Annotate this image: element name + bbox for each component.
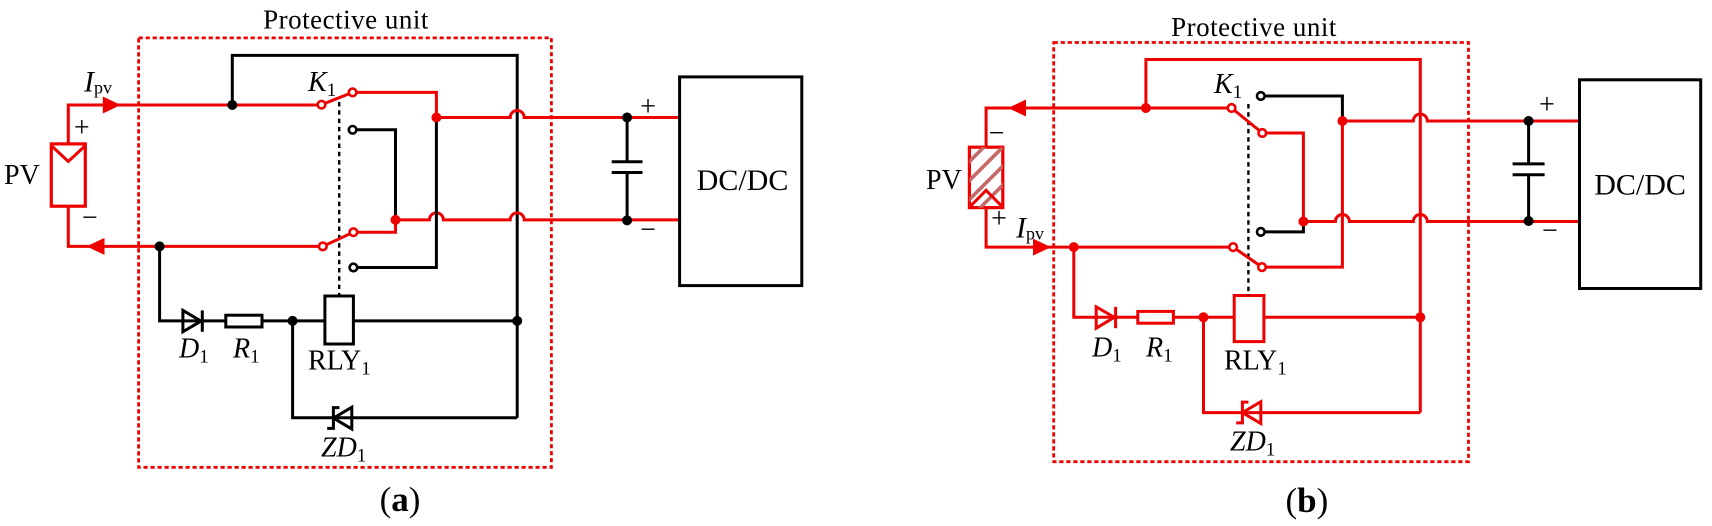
svg-text:DC/DC: DC/DC (697, 164, 789, 197)
contact K1 top common (a) (318, 101, 326, 109)
node tap PV+ (b) (1069, 242, 1079, 252)
arrow Ipv (b) (1033, 239, 1051, 256)
wire D1 branch from PV+ (b) (1074, 247, 1234, 317)
svg-text:Protective unit: Protective unit (263, 5, 429, 35)
node output- (a) (391, 215, 401, 225)
wire ZD1 branch (a) (293, 321, 518, 418)
PV chevron (a) (51, 146, 85, 162)
svg-text:PV: PV (4, 160, 40, 191)
wire RLY1 to right rail (b) (1264, 316, 1420, 319)
svg-text:PV: PV (926, 165, 962, 196)
arrow Ipv (a) (103, 97, 121, 114)
diode D1 (a) (183, 310, 202, 331)
capacitor C top stub (b) (1527, 121, 1530, 164)
svg-text:−: − (82, 203, 98, 234)
PV hatch (b) (955, 92, 1020, 233)
PV cell PV (b) (969, 147, 1002, 207)
svg-text:+: + (991, 203, 1007, 234)
wire PV+ bottom (b) (986, 208, 1233, 248)
arrow return current (a) (87, 238, 105, 255)
svg-text:−: − (989, 118, 1005, 149)
node R1-RLY1 junction (b) (1199, 312, 1209, 322)
capacitor C top stub (a) (626, 118, 629, 162)
node R1-RLY1 junction (a) (288, 316, 298, 326)
wire NC bottom contact black (b) (1261, 222, 1304, 232)
resistor R1 (b) (1138, 311, 1174, 323)
PV chevron (b) (969, 190, 1002, 207)
node cap- (a) (622, 215, 632, 225)
zener diode ZD1 (b) (1236, 402, 1261, 424)
DC/DC converter block (b) (1580, 80, 1701, 289)
wire D1 branch from PV- (a) (160, 246, 325, 321)
wire K1 bottom NO riser (b) (1262, 121, 1342, 267)
wire output- (a) (396, 213, 680, 220)
contact K1 bottom NO (a) (350, 228, 358, 236)
node RLY1-right rail junction (b) (1415, 312, 1425, 322)
zener diode ZD1 (a) (327, 407, 352, 429)
svg-text:+: + (640, 91, 656, 122)
node cap- (b) (1524, 216, 1534, 226)
contact K1 top NO (a) (349, 89, 357, 97)
DC/DC converter block (a) (680, 77, 802, 286)
switch blade K1 top (a) (322, 92, 353, 104)
node output+ (b) (1337, 116, 1347, 126)
wire NC top contact black (b) (1261, 96, 1343, 121)
node cap+ (b) (1524, 116, 1534, 126)
contact K1 bottom common (b) (1229, 243, 1237, 251)
wire PV- bottom (a) (68, 206, 322, 246)
node output- (b) (1298, 217, 1308, 227)
wire PV+ top (a) (68, 105, 321, 144)
node tap PV+ (a) (227, 100, 237, 110)
svg-text:DC/DC: DC/DC (1594, 169, 1686, 202)
resistor R1 (a) (226, 315, 262, 327)
diode D1 (b) (1096, 307, 1115, 328)
PV cell PV (a) (51, 144, 85, 206)
wire output+ (b) (1342, 114, 1579, 121)
protective unit box (b) (1054, 43, 1469, 462)
contact K1 bottom NO (b) (1258, 263, 1266, 271)
capacitor C bottom stub (b) (1527, 175, 1530, 221)
svg-text:+: + (1539, 90, 1555, 121)
node cap+ (a) (622, 113, 632, 123)
capacitor C plates (b) (1513, 164, 1545, 175)
node RLY1-right rail junction (a) (512, 316, 522, 326)
wire K1 bottom throw to output node (a) (353, 220, 395, 232)
node tap PV- (a) (155, 241, 165, 251)
wire RLY1 to right rail (a) (353, 319, 517, 322)
contact K1 top NO (b) (1259, 129, 1267, 137)
wire output+ (a) (436, 111, 679, 118)
wire coil supply red top rail (b) (1146, 60, 1420, 413)
capacitor C bottom stub (a) (626, 173, 629, 221)
switch blade K1 bottom (a) (323, 232, 354, 246)
wire K1 top NO to output- node (b) (1262, 133, 1303, 222)
wire coil supply black top rail (a) (232, 55, 517, 417)
node output+ (a) (431, 113, 441, 123)
switch blade K1 top (b) (1232, 108, 1263, 133)
wire PV- top (b) (986, 108, 1232, 147)
contact K1 top common (b) (1228, 104, 1236, 112)
relay coil RLY1 (b) (1234, 296, 1264, 342)
relay coil RLY1 (a) (325, 296, 354, 344)
contact K1 bottom NC black (a) (350, 264, 358, 272)
protective unit box (a) (139, 38, 552, 468)
switch blade K1 bottom (b) (1233, 247, 1262, 267)
contact K1 bottom common (a) (319, 243, 327, 251)
contact K1 top NC black (a) (349, 126, 357, 134)
svg-text:(b): (b) (1286, 481, 1329, 520)
svg-text:−: − (640, 215, 656, 246)
capacitor C plates (a) (612, 162, 643, 173)
svg-text:(a): (a) (380, 480, 421, 519)
wire NC bottom contact to output+ node (a) (353, 118, 436, 268)
wire output- (b) (1303, 215, 1579, 222)
contact K1 top NC black (b) (1257, 92, 1265, 100)
relay mechanical link dashed (a) (338, 102, 340, 296)
wire K1 top throw to output node (a) (353, 92, 437, 117)
svg-text:Protective unit: Protective unit (1171, 12, 1337, 42)
wire ZD1 branch (b) (1204, 317, 1421, 412)
svg-text:+: + (74, 113, 90, 144)
arrow return current (b) (1008, 100, 1026, 117)
wire NC top contact to output- node (a) (353, 130, 396, 220)
contact K1 bottom NC black (b) (1257, 228, 1265, 236)
svg-text:−: − (1542, 216, 1558, 247)
relay mechanical link dashed (b) (1247, 104, 1249, 296)
node tap PV- (b) (1141, 103, 1151, 113)
